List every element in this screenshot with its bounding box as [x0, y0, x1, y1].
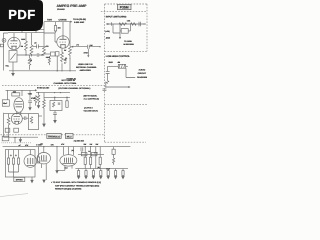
svg-text:7025: 7025 — [47, 19, 53, 22]
resistor R40 — [7, 158, 9, 164]
arrowhead B+ — [70, 21, 72, 23]
potentiometer wiper — [10, 53, 15, 71]
svg-text:270K: 270K — [31, 97, 36, 100]
triode V2 plate — [60, 36, 67, 40]
wire grid bus — [3, 33, 8, 71]
wire plate riser V2 — [62, 22, 64, 36]
triode V1 grid — [10, 43, 17, 45]
wire mid bus — [78, 153, 104, 155]
svg-text:SPEED: SPEED — [16, 179, 24, 182]
triode V1 envelope — [8, 37, 20, 49]
tick hang 2 — [35, 30, 37, 33]
osc bottom joins — [9, 164, 19, 177]
potentiometer VOL box — [9, 51, 17, 63]
resistor R30 zig — [7, 114, 10, 138]
input jack — [2, 38, 6, 42]
svg-text:2W: 2W — [84, 143, 87, 146]
svg-text:CIRCUIT: CIRCUIT — [138, 72, 147, 75]
wire V1 plate up — [13, 33, 15, 38]
resistor R3 — [43, 33, 46, 56]
wire R12 out — [126, 65, 128, 67]
svg-text:270K: 270K — [84, 51, 89, 54]
svg-text:VOM: VOM — [28, 92, 33, 95]
diode bar — [111, 22, 113, 26]
capacitor C22 inner — [58, 102, 60, 105]
junction dot g1 — [54, 97, 55, 98]
dashed separator tremolo — [1, 134, 105, 136]
ground R22 — [37, 105, 39, 108]
tag box SPEED — [14, 177, 25, 181]
wire future bus — [36, 92, 70, 94]
tube V6 electrodes — [62, 158, 74, 164]
triode V2 cathode — [60, 45, 66, 49]
hanging unit 5 — [107, 169, 109, 171]
resistor R23 zig — [43, 100, 46, 110]
svg-text:0.900 AMP: 0.900 AMP — [74, 21, 85, 24]
wire jack drop 1 — [112, 24, 114, 33]
wire takeoff vert — [105, 82, 107, 88]
capacitor C23 near border — [103, 89, 107, 91]
wire takeoff arrow — [106, 86, 129, 88]
junction dot b — [69, 70, 70, 71]
svg-text:4.7: 4.7 — [64, 61, 66, 64]
svg-text:10: 10 — [88, 150, 90, 153]
hanging unit 1 — [78, 169, 80, 171]
hanging unit 4 — [100, 169, 102, 171]
wire center drop — [56, 147, 58, 171]
resistor grid-stopper left — [0, 44, 3, 47]
ground osc left — [31, 177, 33, 183]
capacitor C1 coupling — [33, 44, 44, 48]
svg-text:1W: 1W — [90, 143, 93, 146]
triode V4 electrodes — [13, 117, 20, 124]
resistor R44 — [38, 157, 40, 163]
wire box continue — [38, 115, 42, 117]
svg-text:AMPLIFIER: AMPLIFIER — [80, 69, 92, 72]
triode V7 pin — [29, 150, 31, 155]
tube V5 top pin — [43, 147, 45, 153]
resistor R1 plate load — [25, 33, 28, 54]
ground stage4 — [19, 137, 21, 142]
trim arrow — [65, 58, 67, 62]
resistor R42 — [17, 158, 19, 164]
dashed border input box top — [105, 3, 147, 5]
junction dots bus — [43, 146, 44, 147]
osc drop 2 — [13, 150, 15, 158]
tone box A — [51, 52, 56, 56]
junction dot e — [105, 86, 106, 87]
hanging unit 7 — [122, 169, 124, 171]
capacitor C5 — [37, 53, 44, 57]
svg-text:15: 15 — [30, 59, 32, 62]
triode V2 envelope — [57, 36, 69, 48]
ground C23b — [54, 120, 57, 123]
resistor R46 — [99, 157, 101, 164]
component box reverb — [121, 29, 128, 34]
wire stage4 bottom — [4, 136, 38, 138]
resistor R48 hbox — [81, 153, 87, 156]
wire box B top — [54, 97, 56, 100]
osc drop 1 — [8, 150, 10, 158]
wire stage4 left rail — [3, 113, 5, 137]
wire mid drop 1 — [7, 90, 9, 100]
tick hang 1 — [21, 30, 23, 33]
wire R1 lower — [25, 54, 27, 55]
svg-text:(+20): (+20) — [105, 30, 110, 33]
wire drop r2 low — [99, 164, 101, 168]
svg-text:(98TTE MODEL: (98TTE MODEL — [84, 95, 99, 98]
osc drop 3 — [18, 150, 20, 158]
svg-text:(FUTURE CHANNEL OPTIONAL): (FUTURE CHANNEL OPTIONAL) — [59, 87, 91, 90]
svg-text:LOW-HIGH CONTROL: LOW-HIGH CONTROL — [106, 55, 131, 58]
wire low-high vert — [107, 66, 109, 71]
pentode V3 electrodes — [15, 102, 23, 115]
jack arrow — [107, 23, 109, 25]
box network B — [50, 101, 62, 111]
faint corner mark — [0, 194, 28, 197]
wire drop r1 — [90, 147, 92, 158]
inductor squiggle — [113, 154, 115, 164]
wire drop r3 low — [84, 164, 86, 168]
svg-text:.05: .05 — [64, 58, 66, 61]
tone box B — [55, 52, 59, 56]
wire stage4 top rail — [4, 113, 29, 115]
svg-text:CHANNEL WITH TREM.: CHANNEL WITH TREM. — [54, 82, 77, 85]
svg-text:VOLUME ONLY): VOLUME ONLY) — [84, 109, 99, 112]
dashed inner rule — [101, 11, 147, 13]
box network A — [28, 114, 38, 130]
wire ground bus — [9, 70, 76, 72]
osc cross marks — [10, 154, 17, 156]
wire R5 drop — [61, 63, 63, 71]
small box L1 — [5, 128, 10, 132]
small box L2 — [14, 128, 19, 132]
svg-text:5C4: 5C4 — [65, 166, 68, 169]
arrowhead 270K — [87, 55, 89, 57]
tube V6 envelope — [60, 155, 77, 166]
tube V6 pins top — [63, 147, 73, 155]
svg-text:NOT USED IN: NOT USED IN — [62, 79, 76, 82]
svg-text:470: 470 — [46, 45, 49, 48]
tube V5 envelope — [37, 153, 50, 164]
resistor R2 — [30, 33, 33, 57]
resistor R6 — [69, 22, 72, 59]
wire pot to caps — [17, 54, 37, 56]
pentode V3 envelope — [14, 98, 24, 113]
capacitor C40 — [81, 147, 83, 153]
wire mid drop 2 — [21, 90, 23, 96]
svg-text:AMP (PAD CONNECT TREMOLO (NET): AMP (PAD CONNECT TREMOLO (NET)(A) (DC) — [55, 184, 99, 187]
svg-text:100K: 100K — [21, 38, 26, 41]
capacitor C30 — [22, 116, 28, 120]
resistor R45 — [90, 157, 92, 164]
svg-text:250K: 250K — [109, 61, 114, 64]
resistor R47 — [84, 157, 86, 164]
dashed border input box bottom — [105, 50, 147, 52]
tube V5 electrodes — [40, 155, 47, 161]
ground center — [56, 171, 58, 173]
ground bottom left 2 — [43, 173, 45, 180]
triode V1 plate — [11, 37, 18, 40]
svg-text:REMOVE (DC)(A) (A) (NOW): REMOVE (DC)(A) (A) (NOW) — [55, 188, 82, 191]
svg-text:CHANG: CHANG — [57, 8, 65, 11]
wire R6 drop — [69, 58, 71, 71]
svg-text:IN REVERB: IN REVERB — [123, 43, 134, 46]
wire upper run — [20, 29, 44, 31]
resistor R12 box — [118, 64, 125, 68]
wire drop r3 — [84, 147, 86, 158]
wire tone drop — [56, 56, 58, 71]
svg-text:4M: 4M — [118, 61, 121, 64]
svg-text:DIAGRAM: DIAGRAM — [137, 76, 147, 79]
svg-text:PRE-AMP: PRE-AMP — [70, 4, 87, 8]
resistor R4 zig small — [48, 56, 50, 65]
wire reverb drop — [119, 33, 121, 37]
svg-text:INPUT SWITCHING: INPUT SWITCHING — [106, 16, 127, 19]
capacitor C23b — [53, 113, 57, 120]
wire B+ top feed — [44, 21, 70, 23]
oscillator box — [5, 150, 35, 177]
resistor R41 — [12, 158, 14, 164]
tag box TREMOLO — [47, 133, 61, 138]
svg-text:.02: .02 — [34, 42, 37, 45]
small box band left — [2, 136, 9, 141]
tag box ML — [65, 133, 73, 138]
hanging unit 3 — [92, 169, 94, 171]
svg-text:TO GRID: TO GRID — [124, 40, 132, 43]
junction dot a — [61, 70, 62, 71]
component network right — [113, 147, 115, 150]
junction dot pot wire — [25, 54, 26, 55]
resistor R25 box — [66, 97, 68, 101]
junction dot f2 — [54, 92, 55, 93]
title tag box — [118, 4, 132, 9]
tube V6 pins bottom — [57, 166, 72, 170]
svg-text:ALL CONTROLS): ALL CONTROLS) — [84, 97, 100, 100]
resistor R31 zig — [30, 117, 32, 124]
svg-text:INSTRUM. CHANNEL: INSTRUM. CHANNEL — [76, 66, 98, 69]
wire tremolo bus — [3, 146, 131, 148]
resistor R20 box — [12, 93, 20, 96]
svg-text:2W: 2W — [96, 143, 99, 146]
wire 270K drop — [87, 49, 89, 56]
hanging unit 2 — [85, 169, 87, 171]
capacitor C20 box 25uF — [2, 100, 9, 106]
arrowhead reverb — [119, 37, 121, 39]
resistor R11 zig — [131, 23, 137, 26]
wire R3 to boxes — [44, 53, 51, 55]
junction dot d — [143, 23, 144, 24]
wire osc right comp — [38, 147, 40, 157]
svg-text:P35M: P35M — [120, 6, 129, 10]
resistor R21 zig — [34, 96, 37, 106]
capacitor C10 — [139, 22, 141, 26]
capacitor C11 — [106, 72, 110, 81]
wire hook — [106, 81, 108, 84]
wire heater run — [8, 32, 44, 34]
wire low-high top — [108, 65, 119, 67]
svg-text:B+350 (0) 180: B+350 (0) 180 — [37, 86, 49, 89]
PDF badge — [0, 0, 43, 31]
arrowhead tap left — [71, 46, 73, 48]
triode V7 envelope — [24, 155, 37, 168]
wire plate riser node — [43, 22, 45, 33]
dashed rule mid right — [105, 103, 148, 105]
resistor R10 zig — [119, 23, 127, 26]
junction dot g2 — [66, 97, 67, 98]
dashed separator future channel — [2, 85, 105, 87]
resistor R7 zig — [28, 55, 31, 70]
svg-text:10uF: 10uF — [106, 167, 110, 170]
arrowhead B+ mid — [35, 89, 37, 91]
svg-text:TO B+(20-35): TO B+(20-35) — [73, 18, 86, 21]
hanging unit 6 — [115, 169, 117, 171]
svg-text:CHANG: CHANG — [59, 19, 67, 22]
arrowhead takeoff — [128, 86, 130, 88]
capacitor C3 — [87, 45, 89, 49]
wire box link — [120, 24, 131, 31]
wire drop r1 low — [90, 164, 92, 168]
resistor R8 drop — [55, 22, 57, 26]
triode V2 grid — [59, 41, 66, 43]
wire jack bus — [106, 23, 146, 25]
wire tremolo tap — [73, 46, 100, 48]
resistor R24 zig inner — [52, 102, 54, 107]
ground R23 — [43, 124, 46, 127]
wire L bend — [126, 68, 135, 77]
ground C21 — [29, 108, 31, 110]
ground channel — [12, 71, 15, 76]
resistor R12 hatch — [119, 64, 125, 68]
wire R23 drop — [43, 109, 45, 124]
wire box B bottom — [54, 111, 56, 113]
junction dot f3 — [60, 92, 61, 93]
wire mid drop 3 — [29, 90, 31, 100]
junction dot f1 — [38, 92, 39, 93]
svg-text:J(0)3: J(0)3 — [106, 37, 110, 40]
triode V7 electrodes — [27, 158, 34, 166]
tick through separator — [14, 137, 17, 142]
dashed rule right lower — [105, 141, 146, 143]
svg-text:ML2: ML2 — [67, 136, 72, 139]
wire lower bus — [75, 168, 128, 170]
junction dot c — [99, 46, 100, 47]
capacitor C21 — [28, 101, 32, 108]
resistor R49 hbox — [91, 153, 97, 156]
resistor R22 zig — [37, 93, 40, 105]
svg-text:PDF: PDF — [8, 7, 36, 22]
resistor R5 cathode — [61, 48, 64, 62]
tube V5 pins — [42, 164, 47, 180]
svg-text:(Y): (Y) — [77, 44, 80, 47]
svg-text:(ALPHA II: (ALPHA II — [84, 106, 93, 109]
triode V1 cathode — [11, 46, 17, 49]
junction dot mix — [41, 54, 42, 55]
dashed border input box left — [104, 4, 106, 142]
junction dot tone — [57, 70, 58, 71]
svg-text:AMPEG: AMPEG — [57, 4, 70, 8]
svg-text:AQ-250-350: AQ-250-350 — [74, 139, 84, 142]
capacitor C41 — [94, 147, 98, 169]
wire future bus2 — [44, 93, 70, 100]
wire to V2 grid — [44, 33, 57, 42]
svg-text:+ TO EXIT CHANNEL WITH TREMOLO: + TO EXIT CHANNEL WITH TREMOLO REMOVE (L… — [51, 181, 101, 184]
wire jack drop 2 — [113, 24, 120, 33]
svg-text:USED ONLY IN: USED ONLY IN — [78, 63, 93, 66]
wire B+ mid — [6, 89, 36, 91]
dashed border input box right — [146, 4, 148, 51]
wire drop r2 — [99, 147, 101, 158]
svg-text:AUDIO: AUDIO — [139, 69, 146, 72]
dotted rule bottom left — [2, 142, 32, 144]
triode V4 envelope — [11, 113, 22, 124]
svg-text:TREMOLO: TREMOLO — [48, 136, 61, 139]
ground V5 — [43, 180, 45, 182]
